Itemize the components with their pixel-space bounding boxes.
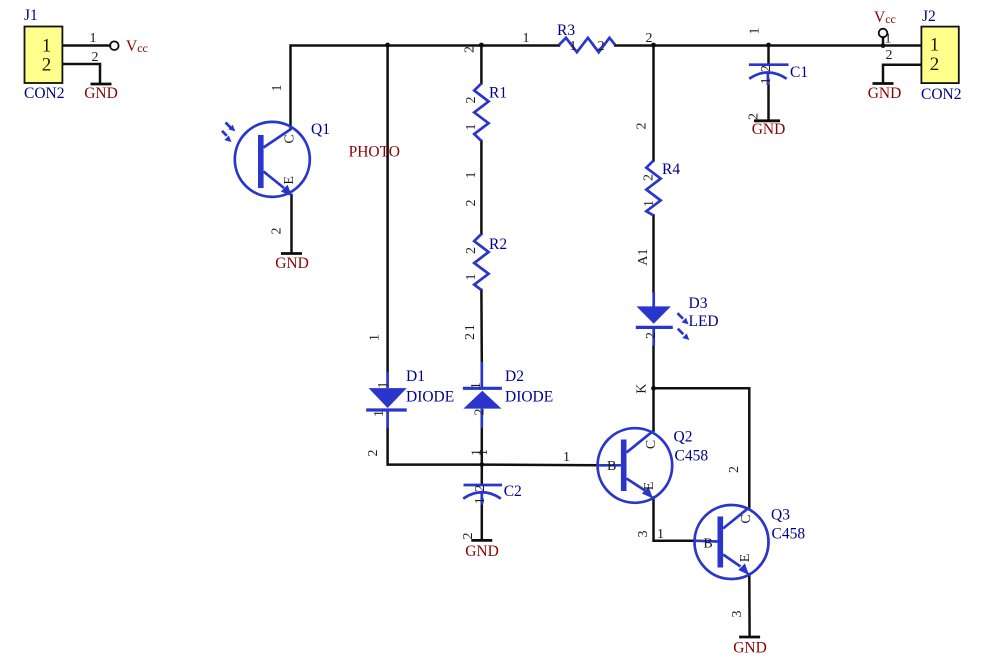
svg-text:2: 2 <box>464 200 479 207</box>
svg-text:Q1: Q1 <box>311 121 330 138</box>
svg-text:D3: D3 <box>689 295 708 312</box>
svg-text:B: B <box>607 459 616 474</box>
svg-text:1: 1 <box>748 28 763 35</box>
svg-text:DIODE: DIODE <box>406 389 454 406</box>
svg-text:GND: GND <box>275 255 309 272</box>
svg-text:1: 1 <box>657 527 664 542</box>
svg-text:1: 1 <box>930 35 940 56</box>
svg-text:2: 2 <box>644 332 659 339</box>
svg-text:R4: R4 <box>662 161 680 178</box>
svg-text:2: 2 <box>473 485 488 492</box>
svg-text:2: 2 <box>886 48 893 63</box>
svg-text:1: 1 <box>885 32 892 47</box>
svg-text:E: E <box>642 482 657 491</box>
svg-text:2: 2 <box>747 113 762 120</box>
svg-text:C458: C458 <box>675 448 709 465</box>
svg-text:GND: GND <box>84 85 118 102</box>
svg-text:1: 1 <box>464 124 479 131</box>
svg-text:2: 2 <box>642 174 657 181</box>
svg-text:2: 2 <box>473 409 488 416</box>
svg-text:1: 1 <box>469 382 484 389</box>
svg-text:Q3: Q3 <box>771 507 790 524</box>
svg-text:Vcc: Vcc <box>126 38 148 55</box>
svg-text:3: 3 <box>636 531 651 538</box>
svg-text:C458: C458 <box>772 526 806 543</box>
svg-text:C: C <box>283 134 298 143</box>
svg-text:2: 2 <box>635 123 650 130</box>
svg-text:Q2: Q2 <box>674 429 693 446</box>
svg-text:C: C <box>644 440 659 449</box>
svg-text:E: E <box>282 176 297 185</box>
svg-text:GND: GND <box>465 543 499 560</box>
svg-text:1: 1 <box>42 35 52 56</box>
svg-text:2: 2 <box>42 55 52 76</box>
svg-text:1: 1 <box>270 85 285 92</box>
svg-text:1: 1 <box>376 382 391 389</box>
svg-text:2: 2 <box>463 46 478 53</box>
svg-text:2: 2 <box>646 31 653 46</box>
svg-text:1: 1 <box>372 410 387 417</box>
svg-text:CON2: CON2 <box>921 86 961 103</box>
svg-text:GND: GND <box>733 640 767 657</box>
svg-text:LED: LED <box>689 313 719 330</box>
svg-text:Vcc: Vcc <box>874 9 896 26</box>
svg-text:1: 1 <box>570 39 577 54</box>
svg-text:1: 1 <box>90 31 97 46</box>
svg-text:2: 2 <box>463 333 478 340</box>
svg-text:1: 1 <box>464 172 479 179</box>
svg-text:GND: GND <box>868 85 902 102</box>
svg-text:B: B <box>703 537 712 552</box>
svg-text:J2: J2 <box>922 8 936 25</box>
svg-text:1: 1 <box>473 497 488 504</box>
svg-text:2: 2 <box>92 50 99 65</box>
svg-text:R1: R1 <box>489 85 507 102</box>
svg-text:GND: GND <box>752 121 786 138</box>
svg-text:C1: C1 <box>790 64 808 81</box>
svg-text:DIODE: DIODE <box>505 389 553 406</box>
svg-text:2: 2 <box>270 228 285 235</box>
svg-text:D1: D1 <box>406 368 425 385</box>
svg-text:1: 1 <box>563 450 570 465</box>
svg-text:1: 1 <box>368 334 383 341</box>
svg-text:D2: D2 <box>505 368 524 385</box>
svg-text:2: 2 <box>727 466 742 473</box>
svg-text:J1: J1 <box>24 7 38 24</box>
svg-text:K: K <box>635 384 650 394</box>
svg-text:1: 1 <box>523 31 530 46</box>
svg-text:2: 2 <box>759 65 774 72</box>
svg-text:1: 1 <box>759 77 774 84</box>
svg-text:2: 2 <box>461 533 476 540</box>
svg-text:3: 3 <box>730 611 745 618</box>
svg-text:PHOTO: PHOTO <box>349 144 400 161</box>
svg-text:2: 2 <box>366 450 381 457</box>
svg-text:1: 1 <box>476 449 491 456</box>
svg-text:2: 2 <box>464 247 479 254</box>
svg-text:C2: C2 <box>504 483 522 500</box>
svg-text:R2: R2 <box>489 236 507 253</box>
svg-text:2: 2 <box>598 39 605 54</box>
svg-text:1: 1 <box>642 200 657 207</box>
svg-text:E: E <box>738 554 753 563</box>
svg-text:R3: R3 <box>557 22 575 39</box>
svg-text:C: C <box>739 514 754 523</box>
svg-text:CON2: CON2 <box>24 85 64 102</box>
svg-text:2: 2 <box>930 54 940 75</box>
svg-text:1: 1 <box>464 274 479 281</box>
svg-text:2: 2 <box>464 97 479 104</box>
svg-text:A1: A1 <box>636 248 651 265</box>
svg-text:1: 1 <box>463 324 478 331</box>
